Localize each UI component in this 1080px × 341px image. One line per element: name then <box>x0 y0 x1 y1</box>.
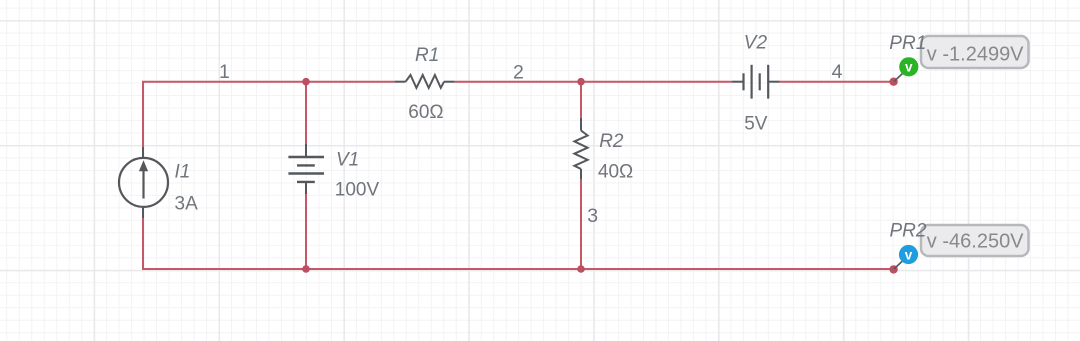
svg-text:2: 2 <box>513 61 524 83</box>
svg-text:R1: R1 <box>415 45 439 66</box>
svg-text:V1: V1 <box>336 149 359 170</box>
svg-text:v -1.2499V: v -1.2499V <box>927 43 1024 65</box>
svg-text:5V: 5V <box>744 114 768 135</box>
svg-text:100V: 100V <box>335 180 380 201</box>
svg-text:4: 4 <box>832 61 843 83</box>
svg-text:3A: 3A <box>175 194 199 215</box>
svg-text:v: v <box>905 247 913 262</box>
svg-text:1: 1 <box>219 61 230 83</box>
svg-text:60Ω: 60Ω <box>408 102 443 123</box>
svg-text:3: 3 <box>587 205 598 227</box>
svg-text:v: v <box>905 60 913 75</box>
svg-text:v -46.250V: v -46.250V <box>927 231 1024 253</box>
svg-text:PR2: PR2 <box>890 221 927 242</box>
svg-text:PR1: PR1 <box>889 33 926 54</box>
svg-text:V2: V2 <box>744 33 768 54</box>
svg-text:R2: R2 <box>599 131 624 152</box>
svg-text:40Ω: 40Ω <box>598 162 633 183</box>
svg-text:I1: I1 <box>175 162 191 183</box>
